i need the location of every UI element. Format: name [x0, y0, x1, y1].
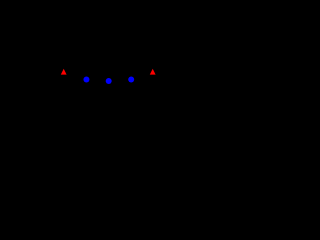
- blue circle marker 3: [128, 76, 134, 82]
- red triangle marker 1: [61, 69, 67, 75]
- blue circle marker 2: [106, 78, 112, 84]
- red triangle marker 2: [150, 69, 156, 75]
- blue circle marker 1: [83, 76, 89, 82]
